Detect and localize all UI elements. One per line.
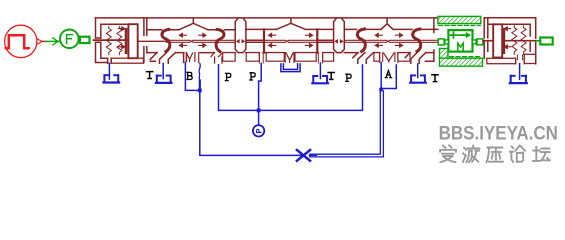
label B [187, 72, 192, 79]
block A/caps1 [223, 53, 235, 62]
label P3 [346, 74, 351, 81]
wire squiggle [199, 64, 200, 81]
right port square of M [473, 40, 477, 44]
right wall inner [529, 24, 531, 51]
pressure face bar right [503, 28, 506, 54]
tank line module1 [108, 63, 110, 79]
chamber B top lines [264, 28, 317, 30]
wire A left [380, 63, 382, 89]
bottom plates right module [487, 58, 516, 63]
char lun [510, 146, 525, 162]
bridge caps1-B [246, 29, 264, 52]
label A [385, 70, 391, 77]
arrow dn module1 [118, 45, 125, 49]
force transducer U1 (F) [60, 30, 79, 49]
M-notch A-port [384, 53, 394, 62]
block under bridge1 [246, 53, 259, 62]
partition module1/A [144, 18, 147, 63]
spring K1 [106, 26, 111, 54]
junction P [257, 109, 261, 113]
wire P2 jog [259, 63, 262, 110]
label P1 [225, 73, 230, 80]
pressure face bar [125, 28, 128, 54]
B-port channel [184, 53, 187, 63]
right wall outer [535, 18, 537, 64]
piston P1 [128, 24, 137, 58]
arrows chamber B [269, 33, 276, 37]
block C left [374, 53, 380, 62]
M-notch B-port [187, 53, 199, 63]
tank line T1 [162, 64, 164, 79]
label T3 [432, 75, 438, 82]
left wall rod slot [96, 38, 101, 42]
block C right + wall [426, 18, 434, 61]
wire green segment with arrow [46, 40, 60, 42]
spring K2 [117, 26, 122, 54]
tank cup1 [157, 75, 171, 77]
spool land capsule C1 [235, 18, 246, 53]
nested tank cup (P drain) [281, 64, 300, 72]
rod mid [138, 40, 167, 42]
spool rod bar B [265, 40, 316, 42]
module1 bottom plate [111, 58, 143, 63]
tank line module end [519, 64, 521, 80]
spool land capsule C2 [334, 18, 345, 53]
pulse generator source [5, 25, 37, 57]
piston P2 [493, 24, 502, 57]
arrows right module [504, 27, 510, 31]
body left wall [96, 18, 108, 63]
label P2 [250, 73, 255, 80]
tank cup3 [411, 74, 425, 76]
T-slot A zigzag channel [150, 53, 175, 64]
tent link C [381, 18, 393, 30]
char ya [487, 148, 503, 163]
spring K4 [521, 26, 526, 55]
T3 slot zigzag channel [405, 53, 426, 64]
svg-text:BBS.IYEYA.CN: BBS.IYEYA.CN [439, 123, 558, 144]
wire A right [383, 65, 396, 89]
tent link A [179, 18, 208, 30]
hatch top bar [438, 16, 481, 23]
char ye [463, 146, 479, 162]
spring K3 [512, 26, 517, 55]
rod left [94, 39, 129, 41]
char tan [533, 147, 550, 161]
metering curve C-right [413, 29, 421, 51]
svg-text:P: P [255, 128, 265, 133]
rod through mass-spring [483, 40, 537, 42]
gauge stem [258, 110, 260, 125]
tent link B [276, 18, 305, 30]
chamber A bottom [147, 52, 235, 54]
hatch bottom bar [440, 58, 483, 66]
wire X stub [309, 154, 316, 156]
tank cup0 [104, 74, 118, 76]
module1 inner chamber [101, 24, 129, 58]
plug X [297, 150, 310, 161]
watermark cjk hand glyphs [440, 145, 550, 162]
bridge B-caps2 [317, 29, 333, 52]
wire A hairpin double line [310, 91, 384, 157]
arrows chamber C [375, 33, 382, 37]
P3 slot zigzag channel [353, 53, 374, 64]
port labels [147, 70, 439, 81]
plus and arrow inside M [451, 32, 457, 38]
metering curve A-right [216, 29, 224, 51]
tank line T2 [319, 63, 321, 79]
wire B down [200, 90, 302, 155]
char ai [440, 145, 456, 162]
output triangle port [37, 39, 42, 45]
module1 bottom slot [108, 58, 112, 63]
junction B [198, 89, 202, 93]
arrows chamber A [179, 33, 186, 37]
dashed slide line bottom [450, 56, 482, 58]
dashed slide line top [439, 25, 481, 27]
tank line T3 [417, 64, 419, 78]
wire P rectangle [219, 65, 363, 111]
green end connector [540, 38, 552, 45]
spool rod bar C [344, 40, 438, 42]
label T1 [147, 72, 153, 79]
tank cup4 [511, 75, 526, 77]
P1 slot diagonals [211, 53, 223, 64]
green rod stub to end port [537, 40, 540, 42]
partition mass/spring [484, 18, 488, 59]
A-port channels [380, 53, 398, 63]
wire red segment [42, 40, 46, 42]
M-notch P-port [285, 53, 294, 63]
T2 channel [318, 53, 322, 63]
left port square of M [438, 39, 444, 45]
arrow up module1 [118, 27, 125, 31]
tank cup2 [313, 75, 327, 77]
chamber C top lines [344, 28, 438, 30]
metering curve C-left [357, 29, 365, 51]
chamber B bottom [265, 52, 316, 54]
pressure sensor [253, 125, 264, 136]
chamber A top lines [147, 29, 235, 31]
body outer top line [96, 17, 438, 19]
green connector port [80, 37, 90, 43]
top line right module [484, 18, 536, 25]
P2 channel [259, 53, 263, 63]
hatch bottom step [440, 49, 449, 59]
wire B port [185, 63, 198, 91]
metering curve A-left [162, 29, 170, 51]
block C mid [398, 53, 410, 62]
blocks under B [266, 53, 284, 62]
chamber B walls [263, 29, 265, 52]
chamber C bottom [344, 52, 434, 54]
label T2 [328, 73, 334, 80]
spool rod bar A [167, 40, 236, 42]
square wave symbol [6, 35, 29, 48]
junction A [379, 88, 383, 92]
mass M box [448, 30, 472, 51]
